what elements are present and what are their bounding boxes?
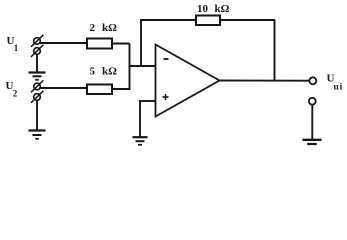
op-amp noninverting input plus sign	[163, 94, 169, 100]
wire noninverting input to ground	[139, 100, 141, 137]
wire op-amp output	[219, 80, 310, 82]
svg-text:kΩ: kΩ	[215, 3, 230, 15]
terminal jack U2 lower	[31, 91, 43, 103]
wire U1 lower jack to ground	[36, 55, 38, 73]
svg-text:10: 10	[197, 3, 209, 15]
resistor 2 kΩ	[87, 39, 112, 49]
op-amp inverting input minus sign	[164, 58, 169, 60]
wire feedback left vertical	[140, 20, 142, 67]
ground (op-amp noninverting input)	[133, 137, 148, 145]
wire U1 jack to R1	[40, 42, 88, 44]
terminal output lower	[309, 98, 316, 105]
resistor 10 kΩ	[196, 16, 220, 26]
label Uui (output)	[327, 73, 344, 93]
terminal jack U1 upper	[31, 35, 43, 47]
ground (output reference)	[303, 140, 322, 144]
label U2	[6, 80, 18, 99]
value label 5 kΩ	[90, 66, 118, 78]
ground (below U1 jacks)	[29, 73, 46, 80]
wire R2 right to node A	[112, 88, 131, 90]
label U1	[7, 35, 19, 53]
wire vertical node bus (R1 down / R2 up)	[129, 44, 131, 90]
wire U2 jack to R2	[40, 87, 88, 89]
wire U2 lower jack to ground	[36, 100, 38, 130]
wire op-amp noninverting input	[140, 100, 156, 102]
wire feedback top	[140, 19, 275, 21]
svg-text:5: 5	[90, 66, 96, 78]
value label 2 kΩ	[90, 22, 118, 34]
svg-text:2: 2	[13, 89, 18, 99]
op-amp U1 triangle	[156, 45, 220, 117]
terminal output upper	[309, 77, 316, 84]
svg-text:ui: ui	[334, 83, 344, 93]
terminal jack U1 lower	[31, 45, 43, 57]
wire R1 right to node A	[112, 43, 130, 45]
ground (below U2 jack)	[29, 131, 46, 139]
value label 10 kΩ	[197, 3, 230, 15]
wire feedback right vertical	[274, 20, 276, 82]
resistor 5 kΩ	[87, 85, 112, 95]
svg-text:kΩ: kΩ	[102, 22, 117, 34]
wire output ground terminal stem	[311, 105, 313, 139]
svg-text:1: 1	[14, 43, 19, 53]
terminal jack U2 upper	[31, 80, 43, 92]
svg-text:kΩ: kΩ	[102, 66, 117, 78]
svg-text:2: 2	[90, 22, 96, 34]
wire node A to op-amp inverting input	[129, 65, 156, 67]
